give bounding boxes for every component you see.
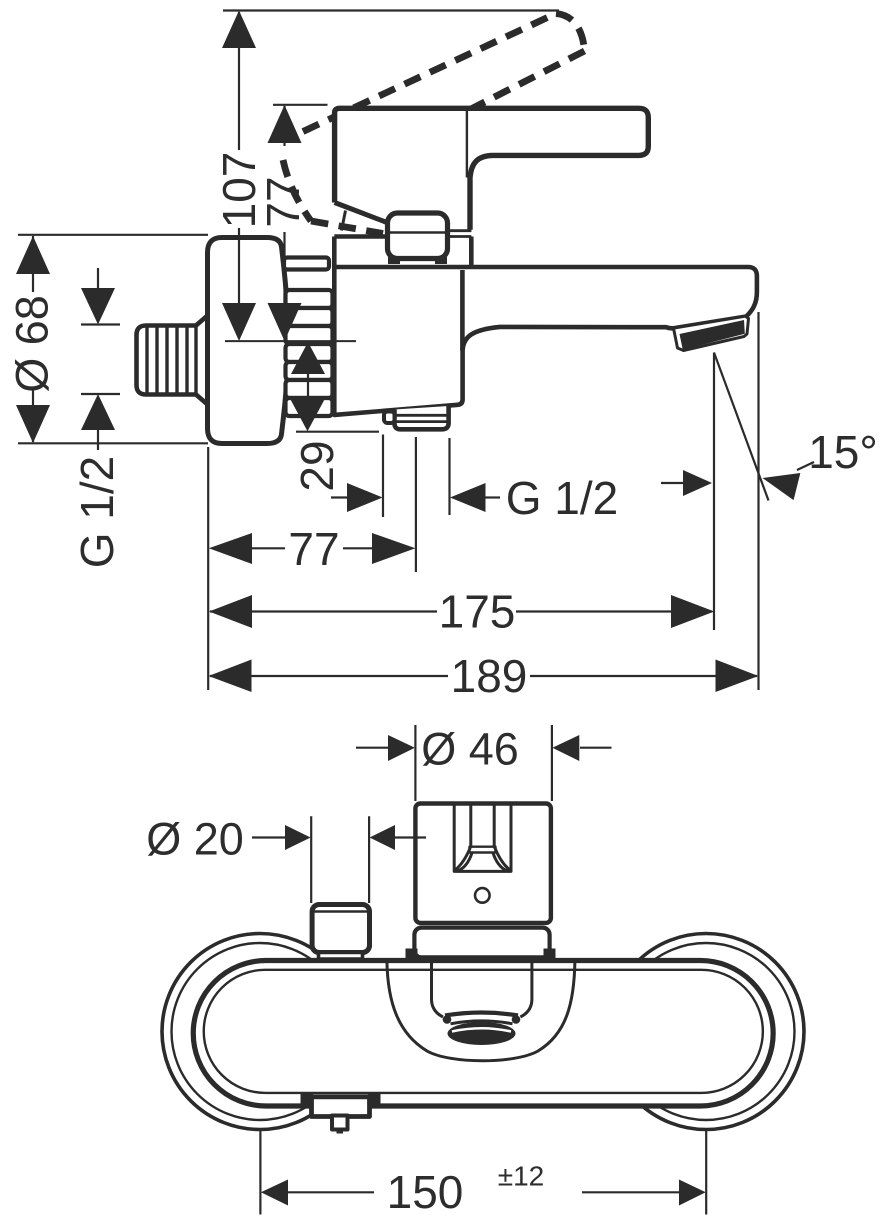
center line <box>225 340 356 342</box>
cartridge cap <box>388 213 448 259</box>
body front edge under plate <box>460 270 465 351</box>
G 1/2 bottom dim <box>382 435 384 518</box>
77 vertical dim <box>273 104 328 106</box>
29 dim <box>296 431 379 433</box>
svg-text:189: 189 <box>451 650 528 702</box>
handle skirt <box>335 203 390 224</box>
svg-text:175: 175 <box>439 586 516 638</box>
handle grip outline <box>335 108 649 229</box>
svg-text:±12: ±12 <box>498 1161 545 1192</box>
svg-text:G 1/2: G 1/2 <box>71 456 123 569</box>
right escutcheon <box>608 934 804 1130</box>
spout aerator side <box>674 316 749 350</box>
aerator bottom view <box>445 1013 518 1016</box>
body + spout silhouette <box>334 267 757 415</box>
107 dim <box>223 9 559 11</box>
shower outlet under body <box>384 406 449 429</box>
dia 68 dim <box>18 234 208 236</box>
svg-text:150: 150 <box>387 1166 464 1218</box>
svg-text:Ø 20: Ø 20 <box>146 814 244 865</box>
dashed lever open position <box>283 14 585 234</box>
bottom bracket <box>301 1094 314 1104</box>
svg-text:77: 77 <box>257 176 309 227</box>
svg-text:Ø 68: Ø 68 <box>7 295 58 393</box>
left escutcheon <box>162 934 358 1130</box>
svg-text:15°: 15° <box>808 426 878 478</box>
diverter knob front <box>312 905 369 953</box>
G 1/2 left dim <box>81 323 120 325</box>
left section top <box>334 234 387 239</box>
dia 46 <box>414 725 416 801</box>
77 horizontal <box>207 447 209 690</box>
189 dim <box>210 675 448 677</box>
svg-text:Ø 46: Ø 46 <box>421 724 519 775</box>
threaded nipple G1/2 <box>137 316 208 405</box>
15 deg annotation <box>713 353 715 631</box>
svg-text:29: 29 <box>291 440 343 491</box>
svg-text:G 1/2: G 1/2 <box>506 472 619 524</box>
union shoulder <box>284 258 329 270</box>
grip separator line <box>466 109 468 178</box>
ledge under handle <box>448 229 472 232</box>
inner U recess <box>432 955 444 1017</box>
outer U recess <box>387 961 575 1061</box>
wall flange <box>208 238 289 444</box>
150 <box>259 1131 261 1215</box>
dia 20 <box>252 836 287 838</box>
base ring <box>414 928 549 958</box>
cartridge handle front <box>415 804 551 923</box>
175 dim <box>210 610 437 612</box>
union thread rings <box>286 290 333 416</box>
body capsule <box>193 961 773 1107</box>
svg-text:77: 77 <box>288 523 339 575</box>
